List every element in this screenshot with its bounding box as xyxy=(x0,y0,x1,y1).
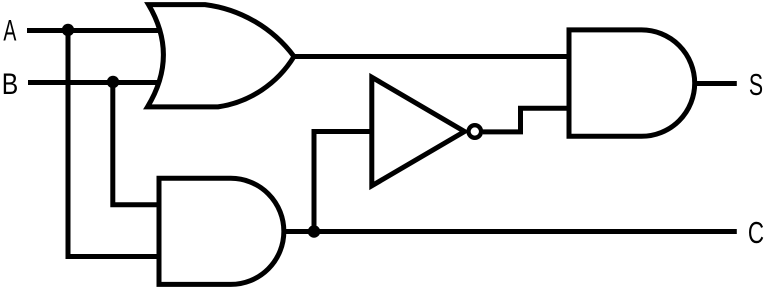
AND gate C xyxy=(159,178,284,284)
svg-text:A: A xyxy=(3,15,16,48)
svg-text:B: B xyxy=(2,68,19,101)
wire A branch down to AND C lower input xyxy=(68,31,162,257)
svg-text:C: C xyxy=(748,215,764,250)
node B junction xyxy=(107,76,119,88)
node C junction xyxy=(308,225,321,238)
AND gate S xyxy=(569,30,695,136)
OR gate xyxy=(148,5,295,107)
wire C output xyxy=(283,229,737,234)
wire inverter output to AND S bottom input xyxy=(483,108,571,132)
wire A input xyxy=(27,28,165,33)
wire S output xyxy=(694,81,737,86)
wire B input xyxy=(28,80,165,85)
wire B branch down to AND C upper input xyxy=(113,83,162,205)
inverter triangle xyxy=(372,77,465,186)
wire C junction up to inverter input xyxy=(314,132,372,232)
wire OR output to AND S top input xyxy=(294,54,571,59)
node A junction xyxy=(62,24,74,36)
inverter bubble xyxy=(469,125,482,138)
svg-text:S: S xyxy=(749,67,763,102)
